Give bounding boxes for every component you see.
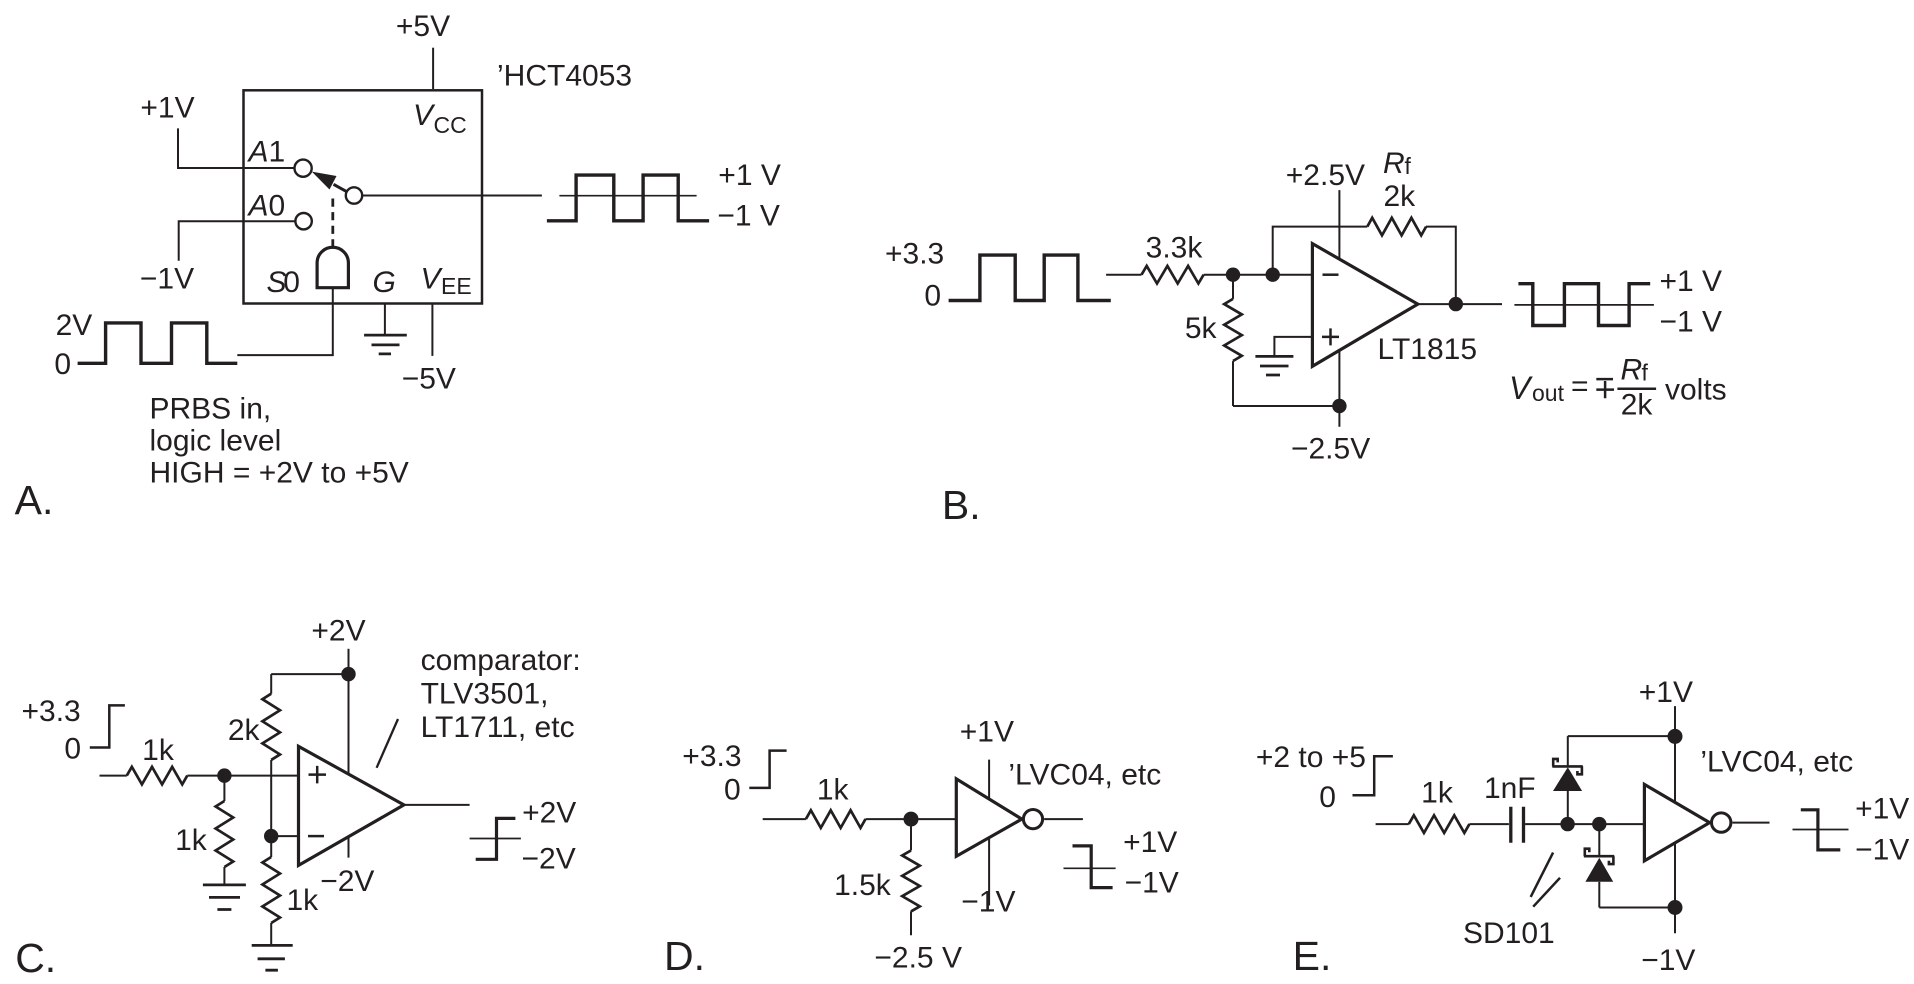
svg-text:+2.5V: +2.5V [1286,159,1365,192]
svg-text:−2.5 V: −2.5 V [874,942,962,975]
switch pole circle [346,187,362,203]
switch arm line [334,184,348,192]
callout slash 1 [1531,853,1553,897]
wire +2.5V [1338,190,1340,259]
wire op-amp V- pin [1338,350,1340,426]
PRBS square wave [78,323,238,363]
resistor 1k input [127,767,187,785]
resistor 1.5k leads [910,819,912,935]
svg-text:CC: CC [434,112,467,138]
resistor 1k E [1409,815,1470,833]
svg-text:’HCT4053: ’HCT4053 [497,59,632,92]
svg-text:V: V [1509,370,1533,406]
svg-text:0: 0 [724,774,741,807]
svg-text:2k: 2k [228,714,261,747]
output step center line D [1064,867,1116,869]
wire to inverting input [1204,274,1313,276]
wire PRBS input to S0 [237,288,332,355]
svg-text:+1V: +1V [140,92,194,125]
svg-text:C.: C. [15,935,56,981]
svg-text:D.: D. [664,933,705,979]
callout slash 2 [1533,878,1560,907]
svg-text:1k: 1k [817,774,850,807]
svg-text:PRBS in,: PRBS in, [150,393,272,426]
svg-text:EE: EE [441,273,472,299]
svg-text:A: A [247,136,269,169]
svg-text:LT1815: LT1815 [1378,333,1478,366]
svg-text:1nF: 1nF [1484,772,1536,805]
minus input mark C [308,835,324,838]
diode D2 wire upper [1598,824,1600,856]
switch arm arrow [312,172,337,190]
junction dot top rail [1668,729,1683,744]
output square wave B [1518,284,1650,326]
svg-text:1.5k: 1.5k [834,869,892,902]
svg-text:logic level: logic level [150,425,282,458]
svg-text:+2V: +2V [522,797,576,830]
wire +1V to pin A1 [178,128,294,168]
resistor 3.3k [1142,266,1204,284]
plus input mark C [309,766,327,784]
output waveform center line B [1514,304,1654,306]
power rail through comparator [348,674,350,858]
input step waveform D [749,751,786,788]
junction dot D [904,812,919,827]
svg-text:+1 V: +1 V [718,159,781,192]
input wire E [1376,823,1409,825]
wire to plus input [187,775,298,777]
input step waveform [90,705,125,747]
resistor 1.5k [902,850,920,911]
svg-text:+1V: +1V [1855,793,1909,826]
diode D1 wire upper [1567,736,1569,766]
svg-text:2V: 2V [56,309,93,342]
svg-text:−1V: −1V [1125,867,1179,900]
junction dot minus node [264,829,278,843]
ground symbol shunt [203,885,246,910]
svg-text:1k: 1k [142,734,175,767]
output step center line E [1793,829,1849,831]
junction dot bottom rail [1668,900,1683,915]
svg-text:f: f [1405,153,1412,179]
diode D2 triangle [1585,858,1613,882]
svg-text:+1V: +1V [1639,676,1693,709]
diode D1 schottky hooks [1553,759,1582,774]
svg-text:R: R [1621,354,1643,387]
output wire C [404,804,470,806]
junction dot input node [1226,268,1240,282]
minus over plus sign [1596,379,1614,398]
output wire from switch [362,195,542,197]
svg-text:−5V: −5V [402,362,456,395]
power rail D [988,760,990,906]
output step center line [470,838,521,840]
top wire to 2k [271,673,348,675]
junction dot input node [1560,817,1574,831]
plus input wire to ground [1274,337,1312,356]
resistor 5k [1232,275,1234,406]
svg-text:3.3k: 3.3k [1146,232,1204,265]
svg-text:out: out [1532,380,1565,406]
feedback wire right [1426,227,1456,305]
svg-text:’LVC04, etc: ’LVC04, etc [1700,746,1853,779]
svg-text:G: G [373,266,396,299]
svg-text:2k: 2k [1621,389,1654,422]
svg-text:2k: 2k [1384,180,1417,213]
wire to inverter D [866,818,957,820]
diode D1 wire lower [1567,791,1569,824]
input step waveform E [1353,756,1393,795]
svg-text:TLV3501,: TLV3501, [421,678,549,711]
top wire to +1V rail [1568,735,1675,737]
resistor 1k shunt leads [223,776,225,885]
inverter triangle D [956,779,1022,856]
ground symbol at plus input [1255,356,1293,375]
resistor 1k lower leads [270,836,272,945]
bottom wire to -1V rail [1599,907,1675,909]
wire to capacitor [1469,823,1509,825]
output step symbol E [1801,810,1841,850]
wire G to ground [384,304,386,336]
svg-text:−1V: −1V [1641,944,1695,977]
svg-text:+1V: +1V [960,716,1014,749]
wire -1V to pin A0 [179,221,296,261]
svg-text:+1V: +1V [1123,826,1177,859]
input wire C [100,775,127,777]
output wire E [1732,822,1769,824]
callout slash [377,719,398,768]
svg-text:−1V: −1V [1855,834,1909,867]
wire +2V [348,649,350,674]
resistor Rf 2k [1367,218,1426,236]
junction dot +2V [341,667,355,681]
output waveform center line [559,195,696,197]
svg-text:f: f [1642,360,1649,386]
svg-text:comparator:: comparator: [421,644,581,677]
svg-text:+3.3: +3.3 [22,695,81,728]
inverter triangle E [1644,784,1709,860]
input square wave B [949,255,1111,300]
output step symbol D [1073,846,1113,888]
ground symbol lower [252,945,293,970]
output wire D [1044,818,1083,820]
minus input mark [1323,273,1339,276]
op-amp U2 triangle [1312,244,1417,367]
resistor 2k leads [270,674,272,829]
svg-text:1k: 1k [175,824,208,857]
inverter bubble E [1712,813,1731,832]
svg-text:+3.3: +3.3 [682,740,741,773]
diode D1 cathode bar [1552,765,1583,768]
terminal circle A0 [295,213,311,229]
output wire B [1418,303,1502,305]
svg-text:−2.5V: −2.5V [1291,433,1370,466]
diode D2 schottky hooks [1585,849,1614,864]
resistor 1k shunt [216,801,234,867]
svg-text:0: 0 [1319,781,1336,814]
svg-text:+2V: +2V [311,615,365,648]
wire Vee to -5V [431,304,433,356]
diode D1 triangle [1553,767,1582,791]
svg-text:−1 V: −1 V [717,200,780,233]
svg-text:=: = [1571,370,1589,403]
inverter bubble D [1023,810,1042,829]
svg-text:+3.3: +3.3 [885,238,944,271]
wire minus node [271,829,298,836]
svg-text:+2 to +5: +2 to +5 [1256,741,1366,774]
svg-text:−1 V: −1 V [1660,306,1723,339]
diode D2 cathode bar [1584,855,1614,858]
junction dot diode node [1592,817,1606,831]
dashed control line [331,199,334,247]
resistor 1k lower [262,857,280,923]
svg-text:volts: volts [1665,374,1727,407]
svg-text:−2V: −2V [320,865,374,898]
resistor 1k D [806,810,866,828]
svg-text:−1V: −1V [140,263,194,296]
svg-text:0: 0 [924,280,941,313]
svg-text:’LVC04, etc: ’LVC04, etc [1008,759,1161,792]
power rail E [1674,706,1676,933]
svg-text:A.: A. [15,477,54,523]
wire 5k to -2.5V node [1233,405,1339,407]
svg-text:0: 0 [54,348,71,381]
wire +5V to Vcc pin [432,48,434,89]
svg-text:5k: 5k [1185,312,1218,345]
fraction bar [1617,387,1656,390]
ground symbol at G [364,335,407,354]
svg-text:1: 1 [269,136,286,169]
select gate dome [317,247,348,287]
svg-text:+5V: +5V [396,10,450,43]
input wire B [1106,274,1141,276]
comparator triangle [299,746,404,865]
capacitor C1 1nF plates [1511,807,1524,843]
svg-text:0: 0 [269,190,286,223]
svg-text:1k: 1k [1421,777,1454,810]
wire capacitor to inverter [1525,823,1644,825]
svg-text:−1V: −1V [961,886,1015,919]
junction dot output [1449,297,1463,311]
output square wave [547,175,709,221]
junction dot input node C [217,768,231,782]
svg-text:−2V: −2V [522,843,576,876]
feedback wire left [1273,227,1368,275]
svg-text:A: A [247,190,269,223]
resistor 2k [262,694,280,760]
svg-text:1k: 1k [287,884,320,917]
svg-text:E.: E. [1293,933,1332,979]
svg-text:SD101: SD101 [1463,917,1555,950]
svg-text:+1 V: +1 V [1660,265,1723,298]
terminal circle A1 [295,160,312,177]
svg-text:HIGH = +2V to +5V: HIGH = +2V to +5V [150,457,409,490]
input wire D [763,818,806,820]
plus input mark [1322,328,1339,345]
diode D2 wire lower [1598,882,1600,908]
svg-text:LT1711, etc: LT1711, etc [421,711,575,744]
svg-text:B.: B. [942,482,981,528]
svg-text:0: 0 [64,733,81,766]
svg-text:0: 0 [283,266,300,299]
junction dot feedback node [1266,268,1280,282]
output step symbol [476,818,516,859]
junction dot -2.5V node [1332,399,1346,413]
IC box U1 'HCT4053 [244,90,483,303]
svg-text:R: R [1383,147,1405,180]
